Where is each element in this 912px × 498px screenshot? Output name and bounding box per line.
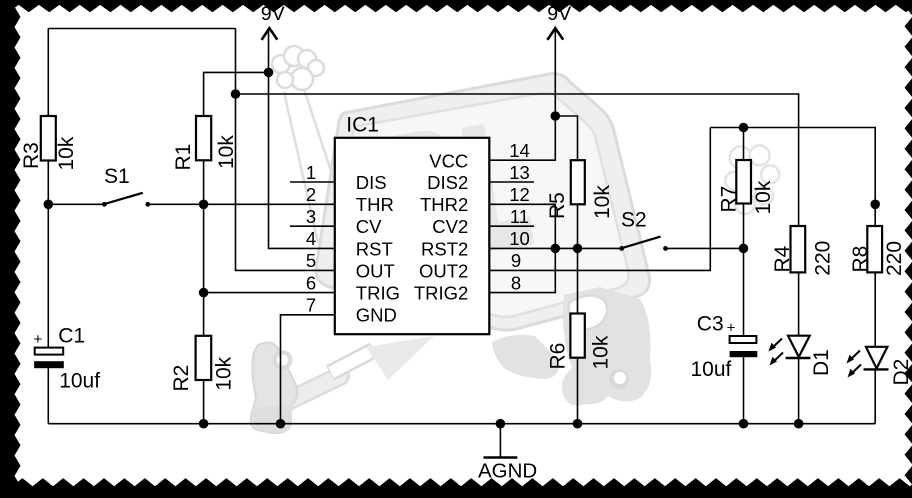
pin 13 stub	[489, 181, 534, 183]
wire R8 to D2	[874, 272, 876, 347]
wire v1 riser to OUT pin5	[236, 29, 335, 271]
node rail R6	[573, 419, 583, 429]
svg-text:DIS: DIS	[356, 172, 387, 193]
resistor R7	[736, 160, 751, 204]
wire S2 row from pin10	[489, 247, 621, 249]
svg-text:9V: 9V	[261, 3, 285, 25]
watermark arm lines	[284, 92, 318, 243]
wire S2 out to R7 node	[666, 247, 744, 249]
wire GND pin7 drop	[281, 315, 335, 424]
capacitor C1	[34, 348, 64, 369]
wire R4 to D1	[798, 272, 800, 335]
watermark wrist white segment	[330, 350, 374, 373]
resistor R8	[867, 226, 882, 272]
border right zigzag	[905, 0, 912, 498]
node 9V/R1	[264, 68, 274, 78]
watermark fist2 outline near R7	[725, 145, 779, 214]
wire R1 to R2 vertical	[203, 160, 205, 335]
wire C1 bottom to rail	[47, 368, 49, 424]
resistor R1	[196, 116, 211, 160]
wire S1 row left	[48, 203, 104, 205]
svg-text:R1: R1	[172, 144, 195, 171]
resistor R4	[791, 226, 806, 272]
wire R1 top link to 9V	[204, 72, 269, 116]
wire R6 bottom to rail	[577, 358, 579, 424]
node 9V2/VCC	[551, 111, 561, 121]
wire D1 to rail	[798, 359, 800, 424]
svg-text:8: 8	[511, 272, 521, 293]
svg-text:9: 9	[511, 250, 521, 271]
svg-text:10uf: 10uf	[691, 358, 732, 381]
svg-text:OUT2: OUT2	[419, 260, 468, 281]
svg-text:D2: D2	[890, 359, 912, 386]
svg-text:9V: 9V	[547, 3, 571, 25]
wire top right rail to R8	[710, 128, 875, 227]
svg-text:220: 220	[883, 241, 906, 276]
node R1/THR	[199, 200, 209, 210]
svg-text:R4: R4	[771, 245, 794, 272]
wire branch to R5 top	[555, 116, 577, 160]
wire R5 bottom	[577, 204, 579, 248]
svg-text:IC1: IC1	[346, 114, 379, 137]
svg-text:VCC: VCC	[429, 150, 468, 171]
svg-text:12: 12	[509, 184, 530, 205]
svg-text:D1: D1	[810, 349, 833, 376]
svg-text:10k: 10k	[55, 136, 78, 170]
node R1/TRIG	[199, 288, 209, 298]
svg-text:1: 1	[306, 162, 316, 183]
svg-text:CV: CV	[356, 216, 382, 237]
svg-text:10: 10	[509, 228, 530, 249]
watermark TV head outer	[316, 74, 650, 330]
node v1 top	[231, 89, 241, 99]
node R7/C3	[739, 244, 749, 254]
svg-text:+: +	[34, 331, 43, 348]
wire R7 top	[743, 128, 745, 161]
LED D2 arrows	[847, 351, 862, 378]
svg-text:DIS2: DIS2	[427, 172, 468, 193]
svg-text:R3: R3	[20, 142, 43, 169]
wire C3 bottom to rail	[743, 357, 745, 424]
svg-text:220: 220	[811, 241, 834, 276]
LED D1 arrows	[769, 339, 784, 366]
LED D1	[786, 336, 811, 358]
svg-text:GND: GND	[356, 305, 397, 326]
resistor R3	[41, 116, 56, 161]
wire THR2 pin12	[489, 204, 555, 248]
svg-text:11: 11	[510, 206, 529, 227]
svg-text:C3: C3	[697, 312, 724, 335]
watermark TV screen	[334, 93, 629, 317]
node R7 top	[739, 123, 749, 133]
node R3/S1	[44, 200, 54, 210]
border left zigzag	[0, 0, 21, 498]
svg-text:TRIG2: TRIG2	[414, 283, 468, 304]
wire ground rail	[48, 423, 875, 425]
svg-text:3: 3	[306, 206, 316, 227]
resistor R6	[570, 314, 584, 358]
svg-text:THR: THR	[356, 194, 394, 215]
svg-text:7: 7	[306, 295, 316, 316]
svg-text:AGND: AGND	[478, 460, 537, 483]
svg-text:14: 14	[509, 140, 530, 161]
power 9V arrow 1	[262, 28, 278, 40]
svg-text:2: 2	[306, 184, 316, 205]
watermark arm band	[288, 376, 340, 401]
LED D2	[864, 347, 889, 370]
node rail R2	[199, 419, 209, 429]
svg-text:+: +	[727, 320, 736, 337]
svg-text:5: 5	[306, 250, 316, 271]
svg-text:OUT: OUT	[356, 260, 395, 281]
node R8 top	[870, 200, 880, 210]
resistor R2	[196, 336, 212, 380]
svg-text:TRIG: TRIG	[356, 283, 400, 304]
node THR2/TRIG2	[551, 244, 561, 254]
node rail GND7	[276, 419, 286, 429]
node rail AGND	[496, 419, 506, 429]
svg-text:CV2: CV2	[432, 216, 468, 237]
wire R2 bottom to rail	[203, 380, 205, 424]
wire R6 top	[577, 248, 579, 313]
wire R3 bottom to C1	[47, 161, 49, 348]
svg-text:13: 13	[509, 162, 530, 183]
pin 11 stub	[489, 225, 534, 227]
wire TRIG2 pin8	[489, 248, 555, 292]
node rail D1	[794, 419, 804, 429]
svg-text:10k: 10k	[591, 185, 614, 219]
watermark fist	[272, 46, 324, 90]
watermark letters	[362, 131, 456, 246]
wire R3 top drop	[47, 29, 49, 117]
resistor R5	[571, 160, 585, 204]
svg-text:4: 4	[306, 228, 316, 249]
op-amp/timer IC1 body	[335, 138, 490, 334]
watermark logo background	[251, 46, 779, 433]
svg-text:10k: 10k	[752, 180, 775, 214]
labels	[261, 3, 571, 25]
wire 9V no1 to RST pin4	[269, 29, 335, 248]
wire long top to R4	[236, 94, 799, 226]
svg-text:R5: R5	[546, 192, 569, 219]
border bottom zigzag	[0, 478, 912, 498]
svg-text:RST2: RST2	[421, 238, 468, 259]
capacitor C3	[730, 336, 758, 357]
svg-text:10k: 10k	[215, 135, 238, 169]
svg-text:10uf: 10uf	[59, 369, 100, 392]
svg-text:10k: 10k	[213, 356, 236, 390]
wire OUT2 pin9 riser	[489, 128, 710, 271]
watermark wrench head	[569, 295, 608, 329]
svg-text:THR2: THR2	[420, 194, 468, 215]
svg-text:S1: S1	[104, 165, 130, 188]
pin 3 stub	[290, 225, 335, 227]
ground AGND symbol	[484, 424, 518, 458]
switch S1	[102, 193, 150, 207]
svg-text:S2: S2	[621, 208, 647, 231]
svg-text:R2: R2	[170, 365, 193, 392]
wire TRIG pin6	[204, 292, 335, 294]
wire D2 to rail	[874, 369, 876, 423]
svg-text:R8: R8	[849, 246, 872, 273]
power 9V arrow 2	[547, 28, 563, 40]
pin 1 stub	[290, 181, 335, 183]
border top zigzag	[0, 0, 912, 12]
node rail C3	[739, 419, 749, 429]
wire R7 bottom to C3	[743, 204, 745, 337]
switch S2	[619, 237, 668, 251]
svg-text:R7: R7	[718, 186, 741, 213]
svg-text:6: 6	[306, 272, 316, 293]
svg-text:10k: 10k	[590, 335, 613, 369]
watermark fist blob	[562, 287, 652, 406]
watermark claw	[251, 343, 297, 433]
node R5/R6	[573, 244, 583, 254]
wire S1 to THR pin2	[148, 203, 335, 205]
wire top-left horizontal	[48, 28, 235, 30]
wire 9V no2 to VCC pin14	[489, 29, 555, 160]
svg-text:C1: C1	[58, 324, 85, 347]
svg-text:RST: RST	[356, 238, 393, 259]
svg-text:R6: R6	[546, 343, 569, 370]
